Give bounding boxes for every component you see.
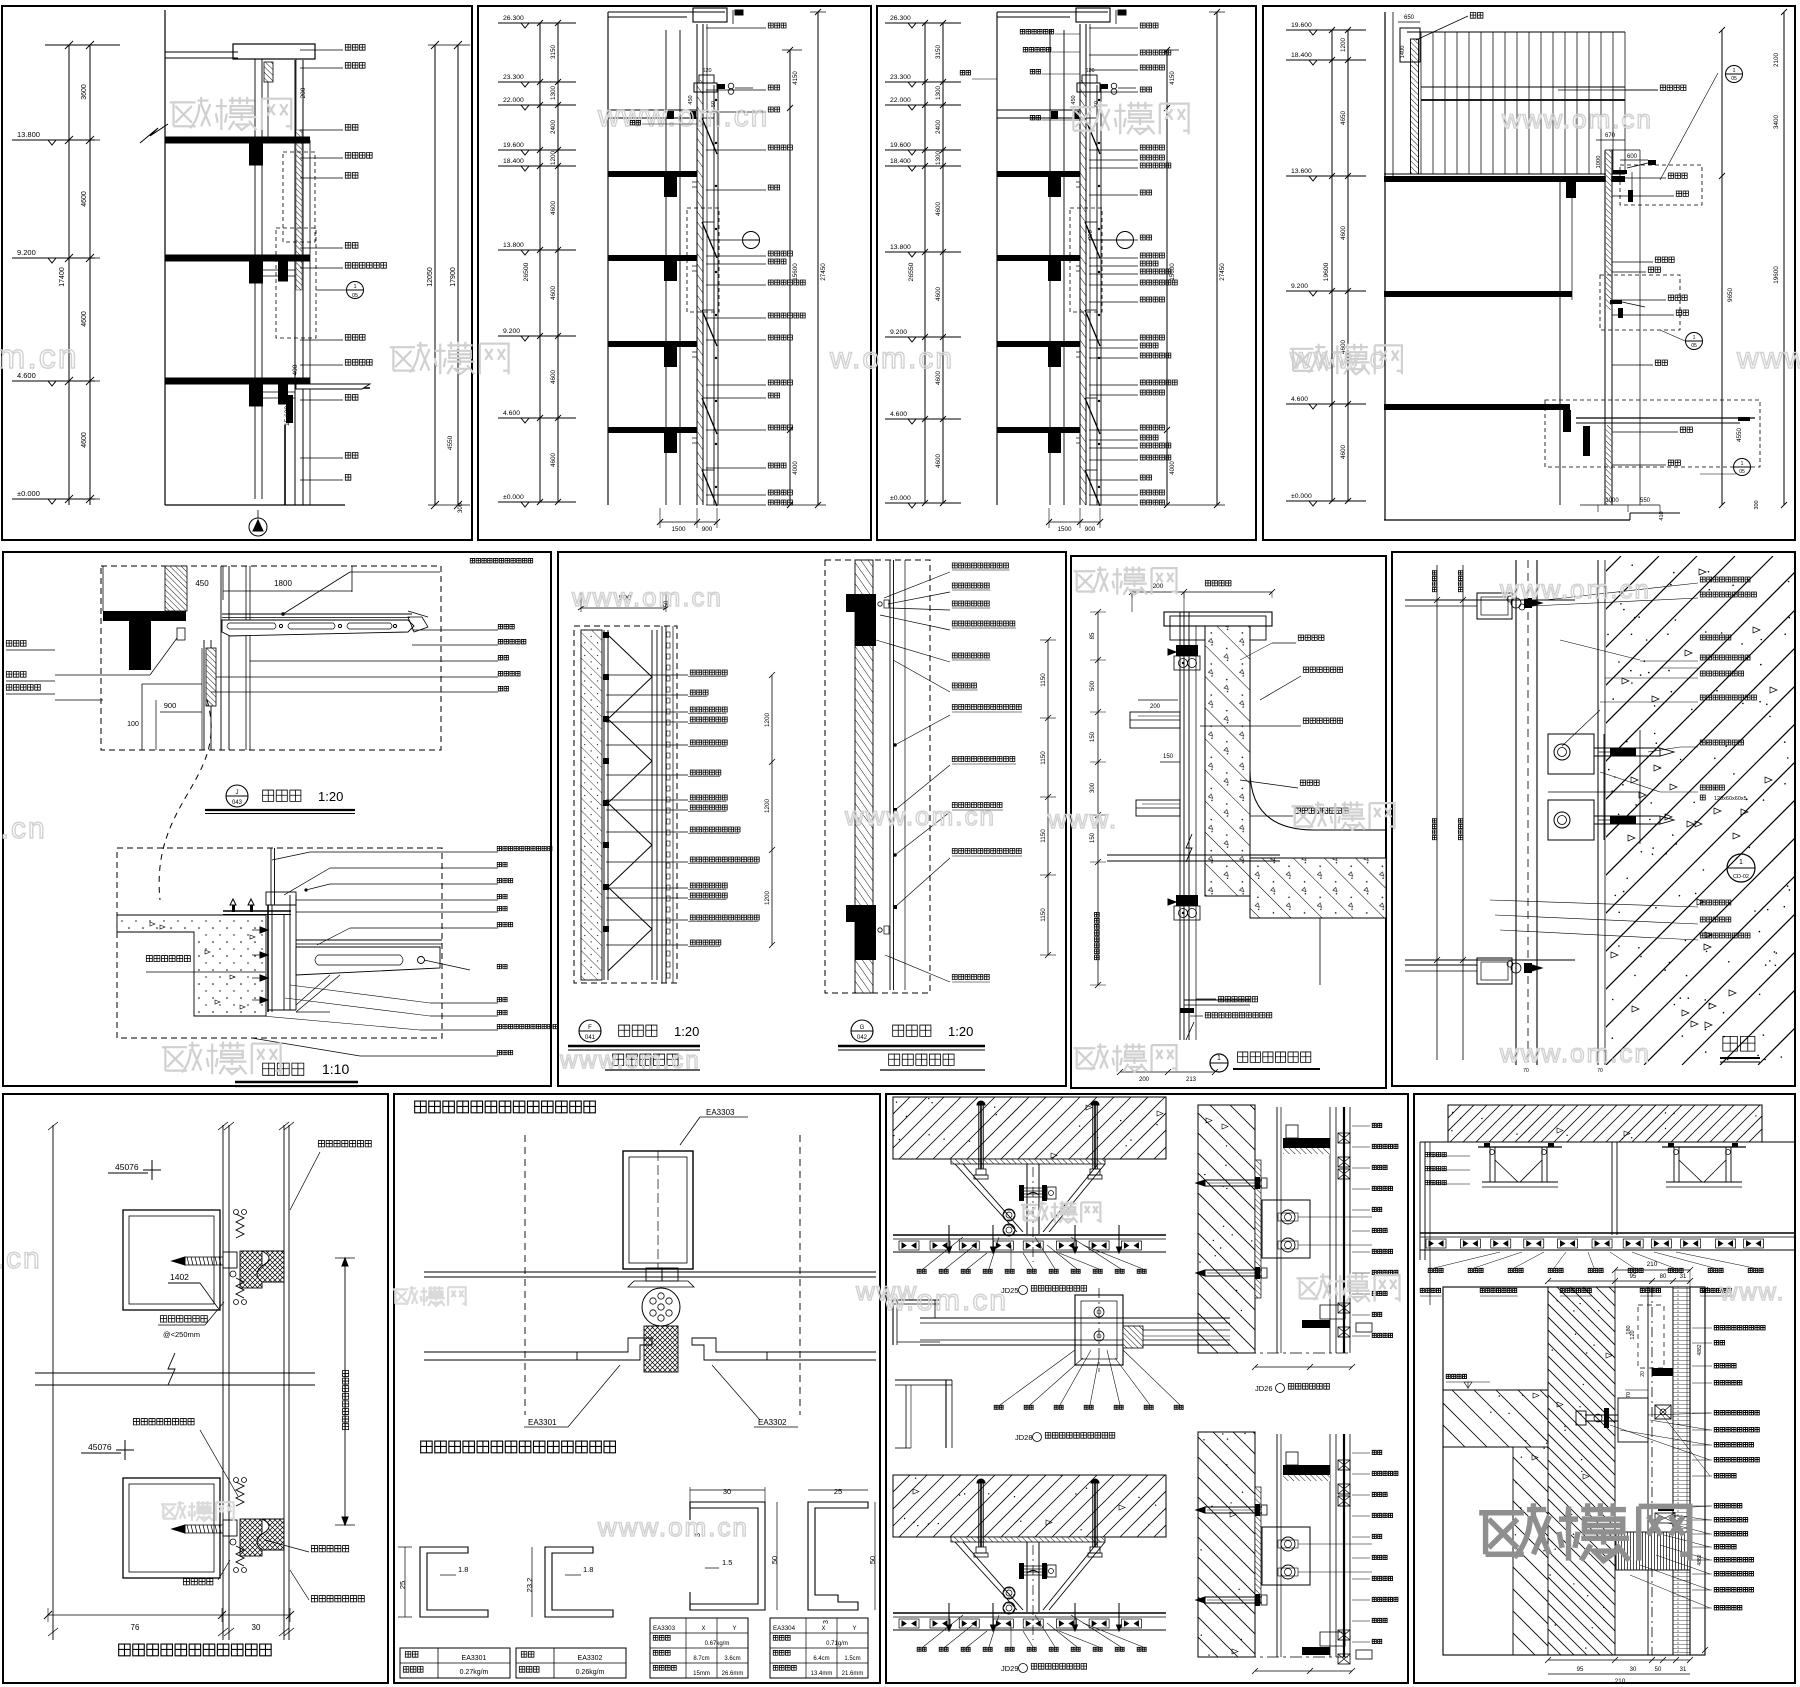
svg-text:www.om.cn: www.om.cn (559, 1047, 701, 1074)
svg-text:4.600: 4.600 (503, 410, 520, 417)
svg-text:0.27kg/m: 0.27kg/m (460, 1669, 489, 1676)
svg-text:200: 200 (1153, 583, 1164, 590)
svg-text:15600: 15600 (1169, 263, 1176, 281)
svg-text:1150: 1150 (1040, 829, 1047, 843)
svg-text:1:20: 1:20 (318, 789, 343, 804)
svg-text:1: 1 (1741, 461, 1744, 467)
svg-text:CD-02: CD-02 (1733, 874, 1749, 880)
svg-text:21.6mm: 21.6mm (842, 1671, 864, 1677)
svg-text:6.4cm: 6.4cm (813, 1656, 829, 1662)
svg-text:19600: 19600 (1773, 266, 1780, 284)
svg-text:23.2: 23.2 (525, 1578, 534, 1593)
svg-text:1150: 1150 (1040, 673, 1047, 687)
svg-text:13.800: 13.800 (890, 244, 911, 251)
svg-text:19.600: 19.600 (890, 142, 911, 149)
svg-text:17400: 17400 (59, 267, 66, 287)
svg-text:3400: 3400 (1773, 115, 1780, 130)
svg-text:1: 1 (1693, 335, 1696, 341)
svg-text:23.300: 23.300 (503, 74, 524, 81)
svg-text:4600: 4600 (550, 453, 557, 468)
svg-text:900: 900 (164, 701, 177, 710)
svg-text:12050: 12050 (427, 267, 434, 287)
svg-text:1:10: 1:10 (322, 1061, 349, 1077)
svg-text:1300: 1300 (935, 86, 942, 101)
svg-text:3150: 3150 (935, 45, 942, 60)
svg-text:1400: 1400 (1400, 46, 1406, 59)
svg-text:www.om.cn: www.om.cn (1501, 104, 1653, 134)
svg-text:J: J (236, 790, 239, 796)
svg-text:4600: 4600 (935, 287, 942, 302)
svg-text:4000: 4000 (1170, 461, 1176, 475)
svg-text:9.200: 9.200 (17, 248, 36, 257)
svg-text:27450: 27450 (1219, 263, 1226, 281)
svg-text:300: 300 (458, 502, 464, 513)
svg-text:w.om.cn: w.om.cn (883, 1284, 1008, 1317)
svg-text:JD28: JD28 (1015, 1433, 1033, 1442)
svg-text:26.300: 26.300 (503, 15, 524, 22)
svg-text:www.: www. (1719, 1279, 1785, 1306)
svg-text:4600: 4600 (1340, 226, 1347, 241)
svg-text:80: 80 (1660, 1274, 1667, 1280)
svg-text:@<250mm: @<250mm (163, 1330, 200, 1339)
svg-text:Y: Y (853, 1626, 857, 1632)
svg-text:200: 200 (1139, 1077, 1150, 1083)
svg-text:4150: 4150 (1170, 71, 1176, 85)
svg-text:±0.000: ±0.000 (1291, 493, 1312, 500)
svg-text:om.cn: om.cn (0, 1242, 42, 1275)
svg-text:900: 900 (1085, 526, 1096, 533)
svg-text:30: 30 (723, 1487, 731, 1496)
svg-text:9.200: 9.200 (890, 329, 907, 336)
svg-text:w.om.cn: w.om.cn (0, 338, 79, 376)
svg-text:4.600: 4.600 (1291, 396, 1308, 403)
svg-text:400: 400 (292, 364, 299, 375)
svg-text:042: 042 (857, 1035, 868, 1041)
svg-text:8.7cm: 8.7cm (693, 1656, 709, 1662)
svg-text:0.67kg/m: 0.67kg/m (705, 1641, 730, 1647)
svg-text:95: 95 (1577, 1667, 1584, 1673)
svg-text:550: 550 (1640, 498, 1651, 504)
svg-text:19.600: 19.600 (1291, 22, 1312, 29)
svg-text:4600: 4600 (935, 202, 942, 217)
svg-text:1000: 1000 (1596, 156, 1602, 169)
svg-text:±0.000: ±0.000 (17, 489, 40, 498)
svg-text:26550: 26550 (908, 262, 915, 281)
svg-text:2100: 2100 (1773, 53, 1780, 68)
svg-text:25: 25 (834, 1487, 842, 1496)
svg-text:300: 300 (1754, 500, 1760, 509)
svg-text:27450: 27450 (820, 263, 827, 281)
svg-text:05: 05 (352, 293, 358, 299)
svg-text:www.: www. (1736, 342, 1800, 375)
svg-text:www.om.cn: www.om.cn (571, 582, 723, 612)
svg-text:X: X (822, 1626, 826, 1632)
svg-text:1200: 1200 (764, 799, 771, 814)
svg-text:4000: 4000 (793, 461, 799, 475)
svg-text:9650: 9650 (1727, 288, 1734, 303)
svg-text:4150: 4150 (793, 71, 799, 85)
svg-text:om.cn: om.cn (0, 812, 47, 845)
svg-text:45076: 45076 (88, 1442, 112, 1452)
svg-text:23.300: 23.300 (890, 74, 911, 81)
svg-text:1200: 1200 (1340, 38, 1347, 53)
svg-text:www.om.cn: www.om.cn (597, 100, 769, 133)
svg-text:2400: 2400 (550, 120, 557, 135)
svg-text:18.400: 18.400 (1291, 52, 1312, 59)
svg-text:25: 25 (398, 1581, 407, 1589)
svg-text:200: 200 (1150, 704, 1161, 710)
svg-text:1.8: 1.8 (458, 1565, 468, 1574)
svg-text:620: 620 (702, 68, 711, 74)
svg-text:26.300: 26.300 (890, 15, 911, 22)
svg-text:30: 30 (252, 1623, 261, 1632)
svg-text:1.5: 1.5 (722, 1558, 732, 1567)
svg-text:4600: 4600 (1340, 445, 1347, 460)
svg-text:1500: 1500 (671, 526, 686, 533)
svg-text:85: 85 (1090, 632, 1096, 639)
svg-text:X: X (702, 1626, 706, 1632)
svg-text:4600: 4600 (935, 454, 942, 469)
svg-text:±0.000: ±0.000 (890, 495, 911, 502)
svg-text:70: 70 (1597, 1068, 1603, 1074)
svg-text:22.000: 22.000 (503, 97, 524, 104)
svg-text:1300: 1300 (550, 86, 557, 101)
svg-text:1500: 1500 (1057, 526, 1072, 533)
svg-text:650: 650 (1404, 15, 1415, 21)
svg-text:F: F (588, 1025, 592, 1031)
svg-text:1200: 1200 (764, 891, 771, 906)
svg-text:410: 410 (1659, 511, 1665, 520)
svg-text:4600: 4600 (81, 432, 88, 448)
svg-text:05: 05 (1731, 76, 1737, 82)
svg-text:450: 450 (1071, 95, 1077, 104)
svg-text:EA3303: EA3303 (653, 1625, 676, 1632)
svg-text:1: 1 (353, 284, 356, 290)
svg-text:EA3301: EA3301 (528, 1418, 557, 1427)
svg-text:1800: 1800 (274, 579, 292, 588)
svg-text:620: 620 (1085, 68, 1094, 74)
svg-text:www.om.cn: www.om.cn (1499, 1038, 1651, 1068)
svg-text:50: 50 (1655, 1667, 1662, 1673)
svg-text:31: 31 (1680, 1274, 1687, 1280)
svg-text:041: 041 (585, 1035, 596, 1041)
svg-text:1.5cm: 1.5cm (844, 1656, 860, 1662)
svg-text:26500: 26500 (523, 262, 530, 281)
svg-text:13.800: 13.800 (503, 242, 524, 249)
svg-text:3600: 3600 (81, 84, 88, 100)
svg-text:4550: 4550 (1736, 428, 1743, 443)
svg-text:05: 05 (1739, 469, 1745, 475)
svg-text:EA3303: EA3303 (706, 1108, 735, 1117)
svg-text:1150: 1150 (1040, 751, 1047, 765)
svg-text:3150: 3150 (550, 45, 557, 60)
svg-text:1: 1 (1739, 859, 1743, 866)
svg-text:Y: Y (733, 1626, 737, 1632)
svg-text:4600: 4600 (550, 370, 557, 385)
svg-text:0.26kg/m: 0.26kg/m (576, 1669, 605, 1676)
svg-text:043: 043 (232, 800, 243, 806)
svg-text:4600: 4600 (550, 286, 557, 301)
svg-text:210: 210 (1647, 1261, 1658, 1268)
svg-text:1200: 1200 (764, 713, 771, 728)
svg-text:1150: 1150 (1040, 908, 1047, 922)
svg-text:450: 450 (195, 579, 209, 588)
svg-text:1402: 1402 (170, 1272, 189, 1282)
svg-text:70: 70 (1626, 1392, 1632, 1398)
svg-text:50: 50 (868, 1556, 877, 1564)
svg-text:15.600: 15.600 (284, 406, 291, 426)
svg-text:1200: 1200 (550, 151, 557, 166)
svg-text:50: 50 (770, 1556, 779, 1564)
svg-text:www.: www. (1047, 804, 1118, 834)
svg-text:4882: 4882 (1697, 1344, 1703, 1355)
svg-text:1300: 1300 (935, 151, 942, 166)
svg-text:0.71g/m: 0.71g/m (826, 1641, 848, 1647)
svg-text:13.4mm: 13.4mm (811, 1671, 833, 1677)
svg-text:120x60x60x5: 120x60x60x5 (1714, 796, 1747, 802)
svg-text:210: 210 (1615, 1678, 1626, 1685)
svg-text:300: 300 (1090, 782, 1096, 793)
svg-text:1.8: 1.8 (583, 1565, 593, 1574)
svg-text:900: 900 (1088, 230, 1094, 240)
svg-text:www.om.cn: www.om.cn (597, 1512, 749, 1542)
svg-text:4600: 4600 (81, 311, 88, 327)
svg-text:17900: 17900 (450, 267, 457, 287)
svg-text:150: 150 (1090, 731, 1096, 742)
svg-text:100: 100 (127, 721, 139, 728)
svg-text:30: 30 (1630, 1667, 1637, 1673)
svg-text:19.600: 19.600 (503, 142, 524, 149)
svg-text:EA3302: EA3302 (758, 1418, 787, 1427)
svg-text:213: 213 (1186, 1077, 1197, 1083)
svg-text:150: 150 (1163, 754, 1174, 760)
svg-text:1:20: 1:20 (674, 1024, 699, 1039)
svg-text:05: 05 (1691, 343, 1697, 349)
svg-text:4650: 4650 (1340, 111, 1347, 126)
svg-text:1000: 1000 (1605, 498, 1619, 504)
svg-text:18.400: 18.400 (503, 158, 524, 165)
svg-text:45076: 45076 (115, 1162, 139, 1172)
svg-text:2400: 2400 (935, 120, 942, 135)
svg-text:18.400: 18.400 (890, 158, 911, 165)
svg-text:JD26: JD26 (1255, 1384, 1273, 1393)
svg-text:www.om.cn: www.om.cn (844, 801, 996, 831)
svg-text:95: 95 (1630, 1274, 1637, 1280)
svg-text:15mm: 15mm (693, 1671, 710, 1677)
svg-text:31: 31 (1680, 1667, 1687, 1673)
svg-text:13.800: 13.800 (17, 130, 40, 139)
svg-text:4600: 4600 (550, 201, 557, 216)
svg-text:19600: 19600 (1323, 262, 1330, 281)
svg-text:500: 500 (1090, 680, 1096, 691)
svg-text:70: 70 (1523, 1068, 1529, 1074)
svg-text:13.600: 13.600 (1291, 168, 1312, 175)
svg-text:G: G (860, 1025, 865, 1031)
svg-text:76: 76 (131, 1623, 140, 1632)
svg-text:www.om.cn: www.om.cn (1499, 574, 1651, 604)
svg-text:1:20: 1:20 (948, 1024, 973, 1039)
svg-text:w.om.cn: w.om.cn (829, 342, 954, 375)
svg-text:15600: 15600 (792, 263, 799, 281)
svg-text:EA3302: EA3302 (578, 1655, 603, 1662)
svg-text:9.200: 9.200 (503, 328, 520, 335)
svg-text:1: 1 (1217, 1055, 1221, 1062)
svg-text:3.6cm: 3.6cm (724, 1656, 740, 1662)
svg-text:1: 1 (1733, 68, 1736, 74)
svg-text:900: 900 (702, 526, 713, 533)
svg-text:20: 20 (1640, 1371, 1646, 1377)
svg-text:EA3304: EA3304 (773, 1625, 796, 1632)
svg-text:600: 600 (1627, 154, 1638, 160)
svg-text:EA3301: EA3301 (462, 1655, 487, 1662)
svg-text:22.000: 22.000 (890, 97, 911, 104)
svg-text:4600: 4600 (81, 191, 88, 207)
svg-text:3: 3 (823, 1620, 830, 1624)
svg-text:4550: 4550 (447, 435, 454, 450)
svg-text:±0.000: ±0.000 (503, 494, 524, 501)
svg-text:4.600: 4.600 (890, 411, 907, 418)
svg-text:9.200: 9.200 (1291, 283, 1308, 290)
svg-text:180: 180 (1626, 1325, 1632, 1334)
svg-text:26.6mm: 26.6mm (722, 1671, 744, 1677)
svg-text:JD29: JD29 (1001, 1664, 1019, 1673)
